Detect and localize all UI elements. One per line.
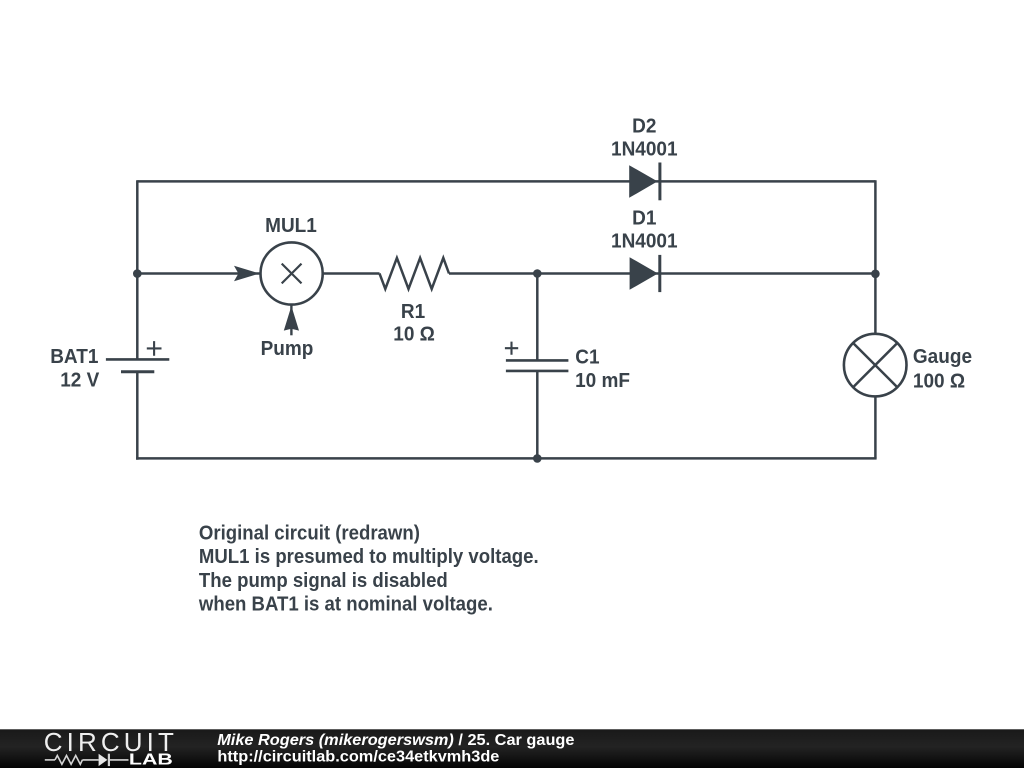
wire top: [137, 180, 875, 183]
value 100 ohm: [913, 370, 965, 393]
wire right vertical lower: [874, 396, 877, 458]
note text block: [198, 523, 539, 616]
svg-text:The pump signal is disabled: The pump signal is disabled: [199, 570, 448, 592]
svg-text:Gauge: Gauge: [913, 346, 972, 369]
CircuitLab logo diode triangle: [99, 754, 108, 766]
label D1: [632, 207, 656, 230]
footer text line 2: [217, 748, 499, 766]
node junction left: [133, 269, 142, 278]
svg-text:Pump: Pump: [261, 337, 314, 360]
label BAT1: [50, 346, 98, 369]
battery BAT1: [106, 341, 169, 372]
wire capacitor branch lower: [536, 371, 539, 459]
resistor R1: [380, 258, 450, 289]
footer text line 1: [217, 731, 574, 749]
node junction C1 top: [533, 269, 542, 278]
svg-text:LAB: LAB: [129, 750, 173, 767]
wire right vertical upper: [874, 180, 877, 334]
svg-text:D2: D2: [632, 115, 656, 138]
wire middle left segment: [137, 272, 259, 275]
svg-text:10 mF: 10 mF: [575, 370, 630, 393]
footer bar: [0, 729, 1024, 768]
CircuitLab logo schematic line: [45, 754, 129, 766]
svg-text:10 Ω: 10 Ω: [393, 323, 435, 346]
svg-text:C1: C1: [575, 346, 599, 369]
label Pump: [261, 337, 314, 360]
capacitor C1: [505, 342, 569, 371]
CircuitLab logo LAB: [129, 750, 173, 767]
svg-text:12 V: 12 V: [60, 369, 99, 392]
svg-text:1N4001: 1N4001: [611, 230, 678, 253]
svg-text:Mike Rogers (mikerogerswsm) /: Mike Rogers (mikerogerswsm) / 25. Car ga…: [217, 731, 574, 749]
value 10 mF: [575, 370, 630, 393]
value 12 V: [60, 369, 99, 392]
label C1: [575, 346, 599, 369]
svg-text:100 Ω: 100 Ω: [913, 370, 965, 393]
value 1N4001 (D1): [611, 230, 678, 253]
node junction right: [871, 270, 880, 279]
CircuitLab logo wordmark: [44, 727, 178, 757]
svg-text:BAT1: BAT1: [50, 346, 98, 369]
wire middle MUL1 to R1: [323, 272, 380, 275]
wire left vertical upper: [136, 180, 139, 359]
svg-text:MUL1: MUL1: [265, 214, 317, 237]
input arrow of MUL1: [234, 266, 259, 282]
label MUL1: [265, 214, 317, 237]
diode D2: [629, 163, 660, 201]
lamp Gauge: [844, 334, 907, 397]
wire capacitor branch upper: [536, 274, 539, 361]
diode D1: [630, 255, 660, 292]
label D2: [632, 115, 656, 138]
svg-text:Original circuit (redrawn): Original circuit (redrawn): [199, 523, 420, 545]
label Gauge: [913, 346, 972, 369]
svg-text:when BAT1 is at nominal voltag: when BAT1 is at nominal voltage.: [198, 594, 493, 616]
wire middle R1 to right: [449, 272, 875, 275]
node junction C1 bottom: [533, 454, 542, 463]
value 10 ohm: [393, 323, 435, 346]
wire bottom: [136, 457, 877, 460]
value 1N4001 (D2): [611, 138, 678, 161]
multiplier MUL1: [261, 242, 323, 304]
svg-text:R1: R1: [401, 300, 425, 323]
svg-text:MUL1 is presumed to multiply v: MUL1 is presumed to multiply voltage.: [199, 547, 539, 569]
svg-text:D1: D1: [632, 207, 656, 230]
pump input arrow: [284, 304, 299, 336]
svg-text:1N4001: 1N4001: [611, 138, 678, 161]
label R1: [401, 300, 425, 323]
svg-text:http://circuitlab.com/ce34etkv: http://circuitlab.com/ce34etkvmh3de: [217, 748, 499, 766]
wire left vertical lower: [136, 372, 139, 460]
